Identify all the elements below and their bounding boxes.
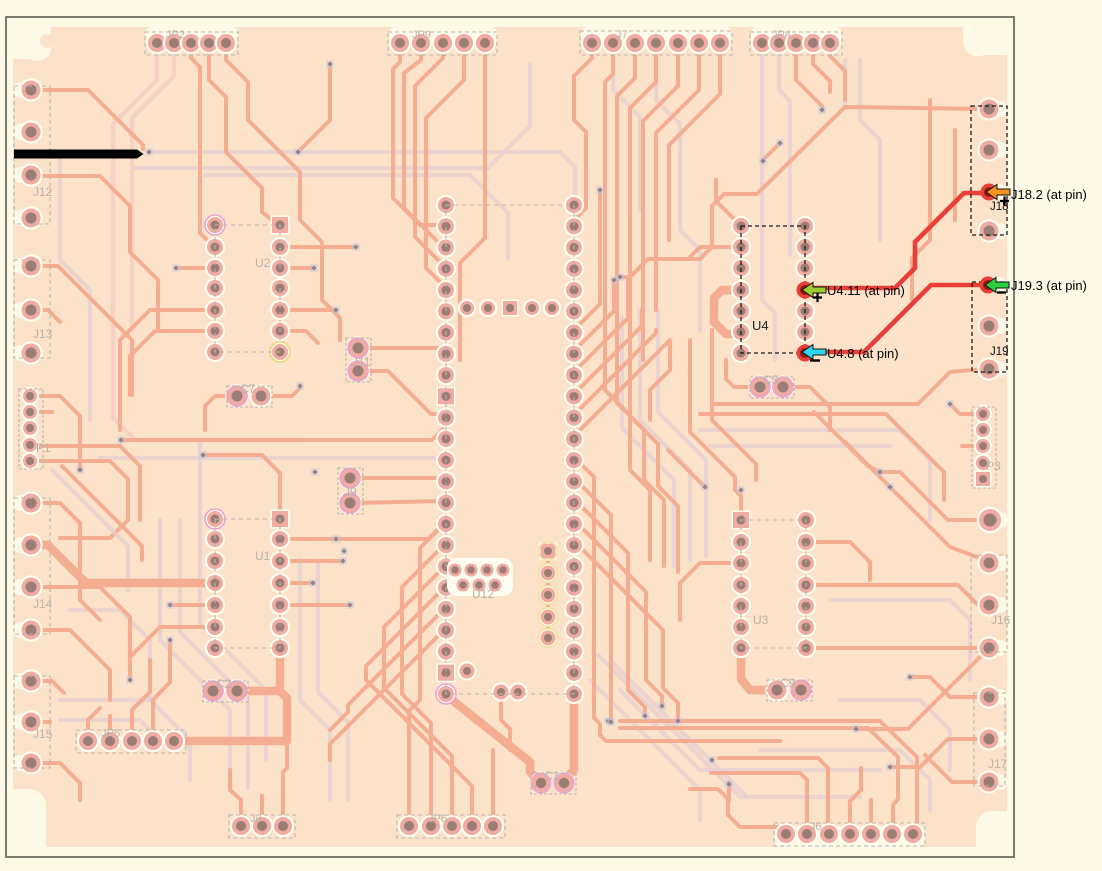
wire — [590, 680, 700, 820]
wire — [763, 143, 780, 161]
wire — [230, 770, 241, 826]
wire — [656, 52, 700, 330]
wire — [113, 52, 300, 440]
pour cutout behind header JP4 — [751, 27, 842, 44]
wire — [330, 607, 446, 730]
wire — [962, 444, 983, 448]
wire — [174, 737, 287, 746]
wire — [205, 175, 508, 258]
wire — [176, 266, 215, 270]
wire — [574, 330, 656, 415]
wire — [280, 308, 334, 312]
svg-text:U1: U1 — [255, 549, 271, 563]
wire — [283, 745, 287, 826]
wire — [160, 520, 230, 790]
capacitor C9 — [765, 676, 812, 702]
wire — [613, 52, 640, 210]
wire — [237, 691, 287, 741]
wire — [276, 648, 285, 688]
wire — [280, 603, 348, 607]
wire — [280, 522, 446, 539]
header JP2 — [145, 29, 238, 55]
svg-text:J13: J13 — [33, 327, 53, 341]
wire — [779, 52, 790, 255]
svg-text:C9: C9 — [780, 676, 796, 690]
wire — [663, 640, 678, 721]
header J7 — [580, 29, 732, 55]
svg-text:J19: J19 — [990, 346, 1009, 358]
wire — [409, 522, 446, 826]
connector J9 — [338, 466, 363, 514]
wire — [656, 43, 699, 310]
edge pad cutout tongues — [13, 82, 1007, 790]
wire — [594, 560, 780, 741]
highlight net trace J18.2 to U4.11 — [806, 193, 988, 288]
wire — [180, 520, 248, 788]
wire — [280, 581, 312, 585]
pad U4.11 highlighted — [797, 282, 814, 299]
svg-text:U12: U12 — [472, 587, 494, 601]
capacitor C1 — [530, 769, 576, 794]
wire — [358, 346, 446, 350]
svg-text:J16: J16 — [991, 613, 1011, 627]
wire — [31, 310, 60, 322]
connector J18 selected — [971, 97, 1009, 242]
wire — [869, 800, 873, 833]
capacitor C7 — [225, 382, 272, 408]
wire — [200, 440, 266, 760]
wire — [726, 360, 760, 387]
header J6 bottom right — [774, 821, 925, 846]
wire — [152, 150, 296, 154]
header P1 — [19, 387, 51, 470]
svg-text:J7: J7 — [616, 29, 628, 41]
pad U4.8 highlighted — [797, 345, 814, 362]
svg-text:C7: C7 — [240, 382, 256, 396]
wire — [783, 387, 830, 430]
svg-text:J12: J12 — [33, 185, 53, 199]
wire — [564, 694, 574, 783]
wire — [280, 559, 342, 563]
wire — [52, 470, 128, 590]
wire — [318, 560, 348, 800]
pour cutout behind header J6 bottom — [775, 826, 925, 847]
wire — [715, 369, 985, 404]
connector J19 selected — [972, 282, 1009, 381]
wire — [796, 43, 822, 110]
wire — [280, 245, 354, 249]
wire — [574, 310, 642, 394]
wire — [890, 739, 989, 767]
wire — [358, 371, 446, 414]
wire — [658, 310, 706, 556]
svg-text:JP6: JP6 — [428, 813, 447, 825]
wire — [806, 542, 870, 580]
wire — [890, 487, 989, 563]
svg-text:U4.11 (at pin): U4.11 (at pin) — [827, 283, 905, 298]
wire — [31, 630, 110, 700]
wire — [880, 472, 990, 520]
header JP5 — [76, 728, 186, 753]
wire — [120, 310, 215, 400]
connector J17 — [974, 685, 1008, 793]
wire — [130, 331, 215, 395]
connector J13 — [14, 254, 53, 364]
wire — [260, 796, 264, 826]
wire — [950, 404, 983, 414]
wire — [814, 412, 880, 472]
wire — [609, 560, 613, 721]
wire — [620, 690, 880, 770]
wire — [491, 750, 495, 826]
wire — [668, 450, 705, 487]
wire — [415, 43, 446, 266]
pad J18.2 highlighted — [981, 184, 998, 201]
svg-text:P3: P3 — [986, 459, 1001, 473]
svg-text:J17: J17 — [988, 757, 1008, 771]
wire — [31, 587, 130, 680]
wire — [690, 789, 786, 833]
wire — [300, 560, 330, 800]
wire — [574, 340, 670, 436]
wire — [574, 280, 628, 372]
wire — [31, 396, 80, 470]
pour notch bottom-right corner — [976, 811, 1007, 847]
wire — [620, 721, 917, 831]
wire — [132, 660, 150, 741]
wire — [830, 600, 970, 680]
wire — [31, 720, 50, 724]
wire — [70, 610, 190, 780]
wire — [910, 677, 989, 697]
connector J15 — [14, 669, 53, 774]
wire — [31, 763, 80, 800]
svg-text:JP2: JP2 — [166, 29, 185, 41]
wire — [350, 501, 446, 503]
wire — [700, 414, 944, 500]
wire — [80, 560, 100, 620]
svg-text:J8: J8 — [250, 813, 262, 825]
wire — [170, 603, 215, 607]
header JP4 — [750, 29, 842, 55]
wire — [121, 426, 446, 440]
wire — [546, 551, 550, 638]
wire — [350, 476, 446, 480]
wire — [741, 650, 770, 690]
wire — [393, 43, 446, 225]
wire — [460, 43, 485, 330]
wire — [574, 280, 614, 351]
svg-text:U4.8 (at pin): U4.8 (at pin) — [827, 346, 899, 361]
wire — [153, 640, 170, 741]
wire — [501, 692, 510, 750]
svg-text:J14: J14 — [33, 597, 53, 611]
wire — [31, 503, 80, 560]
wire — [620, 107, 989, 277]
wire — [612, 662, 746, 796]
wire — [62, 466, 142, 560]
wire — [719, 758, 828, 830]
header JP6 bottom center — [397, 813, 505, 838]
highlight net trace J19.3 to U4.8 — [806, 285, 988, 352]
wire — [620, 728, 898, 830]
wire — [605, 43, 650, 560]
wire — [845, 442, 890, 487]
wire — [366, 586, 472, 826]
wire — [574, 190, 600, 330]
wire — [132, 52, 174, 330]
marker arrow U4.11 green — [802, 283, 826, 303]
connector J8 bottom left — [229, 813, 295, 838]
wire — [574, 43, 592, 220]
pour cutout behind header J7 — [581, 27, 732, 44]
wire — [205, 396, 237, 430]
pour notch top-left corner — [13, 27, 51, 61]
wire — [300, 152, 575, 195]
pour notch top-right corner — [963, 27, 1007, 56]
wire — [574, 520, 646, 600]
wire — [574, 541, 663, 640]
black highlighted trace bar — [14, 150, 144, 159]
svg-text:JP4: JP4 — [772, 29, 791, 41]
wire — [226, 43, 322, 300]
header P3 — [972, 405, 1001, 488]
wire — [108, 716, 112, 741]
wire — [813, 43, 830, 92]
svg-text:JP5: JP5 — [101, 728, 120, 740]
marker arrow J18.2 orange — [986, 185, 1010, 206]
wire — [60, 720, 170, 750]
wire — [446, 694, 538, 780]
wire — [762, 52, 775, 360]
pour notch bottom-left corner — [13, 789, 46, 847]
wire — [690, 340, 741, 520]
connector J14 — [14, 491, 53, 641]
wire — [650, 370, 670, 420]
wire — [31, 681, 64, 693]
wire — [574, 499, 628, 560]
wire — [622, 318, 674, 566]
wire — [760, 750, 930, 810]
wire — [850, 768, 861, 833]
wire — [806, 585, 989, 605]
pour cutout behind header JP9 — [389, 27, 497, 44]
connector J11 — [346, 336, 371, 382]
wire — [60, 160, 90, 420]
IC U4 selected — [731, 216, 815, 363]
pour cutout behind header JP2 — [146, 27, 238, 44]
svg-text:J18: J18 — [990, 201, 1009, 213]
wire — [840, 700, 950, 770]
wire — [925, 755, 989, 782]
capacitor C5 — [748, 373, 794, 399]
wire — [710, 444, 890, 448]
wire — [203, 455, 280, 519]
svg-text:J11: J11 — [352, 355, 371, 369]
marker arrow J19.3 green — [985, 278, 1009, 293]
wire — [574, 478, 611, 560]
wire — [404, 43, 446, 247]
wire — [130, 627, 215, 680]
wire — [60, 698, 150, 702]
wire — [680, 563, 741, 620]
wire — [646, 600, 662, 706]
wire — [727, 783, 731, 800]
wire — [669, 43, 720, 240]
wire — [322, 300, 340, 340]
wire — [843, 60, 847, 108]
wire — [31, 266, 132, 395]
wire — [31, 461, 128, 538]
IC U3 — [731, 510, 816, 658]
wire — [31, 410, 52, 414]
IC U1 — [205, 509, 290, 658]
wire — [716, 180, 741, 226]
wire — [384, 565, 452, 826]
svg-text:U2: U2 — [255, 256, 271, 270]
svg-text:J15: J15 — [33, 727, 53, 741]
wire — [806, 646, 983, 650]
wire — [598, 655, 860, 797]
wire — [574, 457, 594, 560]
wire — [31, 90, 143, 149]
wire — [298, 64, 330, 152]
connector J12 — [14, 78, 53, 229]
header JP9 — [388, 29, 497, 55]
IC U12 center — [436, 195, 584, 704]
marker arrow U4.8 cyan — [802, 345, 826, 361]
wire — [209, 43, 280, 226]
wire — [643, 43, 678, 360]
wire — [330, 628, 446, 760]
wire — [31, 446, 140, 520]
wire — [135, 64, 530, 168]
capacitor C2 — [201, 677, 248, 703]
svg-text:J6: J6 — [810, 821, 822, 833]
wire — [712, 330, 756, 480]
wire — [953, 130, 957, 220]
wire — [628, 560, 645, 716]
wire — [640, 310, 690, 560]
wire — [630, 43, 678, 572]
svg-text:C5: C5 — [763, 373, 779, 387]
wire — [700, 430, 930, 520]
wire — [31, 545, 215, 583]
wire — [714, 290, 741, 334]
wire — [711, 773, 807, 830]
wire — [830, 43, 845, 100]
wire — [860, 60, 880, 240]
IC U2 — [205, 215, 290, 362]
wire — [118, 400, 122, 430]
svg-text:U3: U3 — [753, 613, 769, 627]
wire — [617, 43, 664, 566]
connector J16 — [971, 507, 1011, 660]
svg-text:J9: J9 — [344, 485, 357, 499]
vias — [76, 60, 954, 788]
wire — [31, 176, 158, 330]
wire — [856, 652, 985, 729]
wire — [280, 266, 312, 270]
svg-text:U4: U4 — [752, 318, 769, 333]
pad J19.3 highlighted — [980, 277, 997, 294]
wire — [912, 100, 930, 300]
wire — [458, 330, 462, 360]
svg-text:C2: C2 — [216, 677, 232, 691]
wire — [191, 43, 214, 247]
wire — [426, 43, 464, 286]
svg-text:JP9: JP9 — [412, 29, 431, 41]
svg-text:P1: P1 — [36, 441, 51, 455]
wire — [690, 247, 741, 257]
wire — [402, 543, 446, 826]
wire — [100, 456, 446, 460]
svg-text:J19.3 (at pin): J19.3 (at pin) — [1011, 278, 1087, 293]
wire — [280, 331, 318, 343]
wire — [88, 708, 100, 741]
svg-text:J18.2 (at pin): J18.2 (at pin) — [1011, 187, 1087, 202]
svg-text:C1: C1 — [544, 769, 560, 783]
wire — [261, 386, 300, 396]
